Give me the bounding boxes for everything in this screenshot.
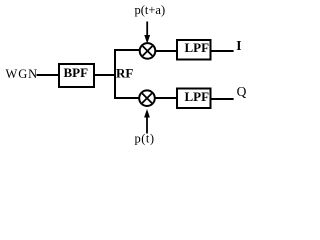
svg-text:Q: Q (237, 84, 247, 99)
svg-text:p(t): p(t) (135, 132, 155, 146)
svg-text:LPF: LPF (185, 40, 210, 55)
svg-text:I: I (236, 38, 241, 53)
svg-text:BPF: BPF (64, 65, 89, 80)
svg-text:p(t+a): p(t+a) (135, 3, 166, 17)
svg-text:WGN: WGN (6, 67, 39, 81)
svg-text:RF: RF (116, 66, 133, 81)
svg-text:LPF: LPF (185, 89, 210, 104)
